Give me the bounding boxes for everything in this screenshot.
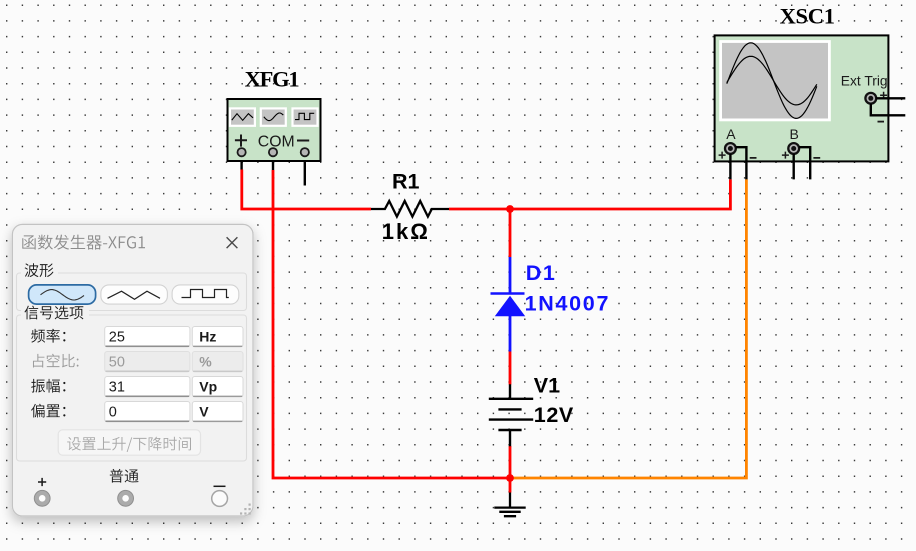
svg-text:25: 25 bbox=[109, 330, 125, 346]
svg-text:V: V bbox=[199, 404, 209, 420]
svg-text:50: 50 bbox=[109, 355, 125, 371]
svg-text:B: B bbox=[790, 126, 799, 142]
svg-text:COM: COM bbox=[258, 134, 295, 151]
svg-text:XFG1: XFG1 bbox=[245, 67, 300, 92]
svg-text:R1: R1 bbox=[392, 169, 420, 193]
svg-text:1N4007: 1N4007 bbox=[525, 292, 611, 316]
svg-text:Hz: Hz bbox=[199, 329, 216, 345]
svg-text:0: 0 bbox=[109, 405, 117, 421]
svg-text:1kΩ: 1kΩ bbox=[382, 219, 430, 244]
svg-text:%: % bbox=[199, 354, 212, 370]
svg-text:D1: D1 bbox=[526, 261, 556, 285]
svg-text:12V: 12V bbox=[534, 403, 574, 427]
svg-text:V1: V1 bbox=[534, 373, 560, 397]
svg-text:A: A bbox=[726, 126, 736, 142]
svg-text:XSC1: XSC1 bbox=[780, 3, 835, 28]
svg-text:Ext Trig: Ext Trig bbox=[841, 74, 888, 89]
svg-text:Vp: Vp bbox=[199, 379, 217, 395]
svg-text:31: 31 bbox=[109, 380, 125, 396]
